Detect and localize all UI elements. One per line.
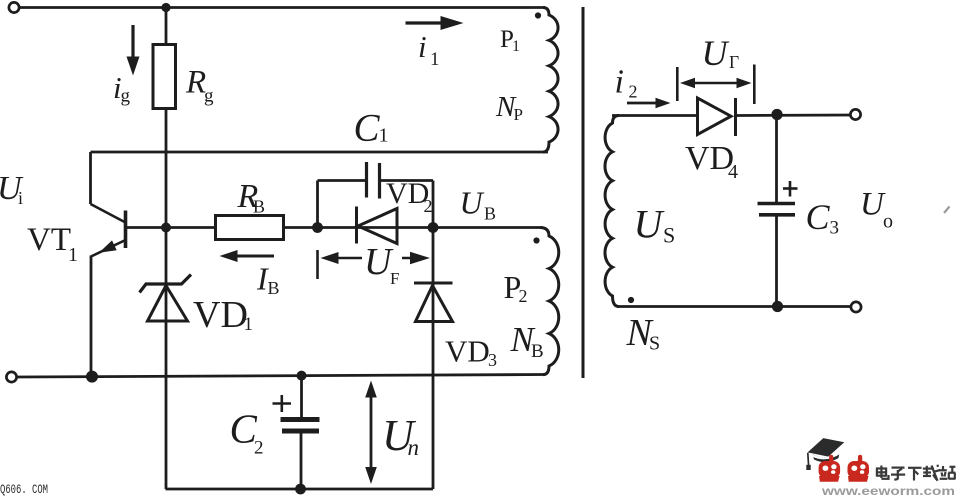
svg-text:VD: VD (685, 140, 734, 177)
svg-text:B: B (531, 341, 544, 362)
svg-text:4: 4 (728, 161, 738, 183)
svg-text:B: B (268, 278, 280, 298)
svg-text:1: 1 (244, 314, 254, 335)
svg-text:3: 3 (830, 218, 840, 239)
svg-text:www.eeworm.com: www.eeworm.com (821, 486, 955, 496)
svg-text:2: 2 (519, 286, 528, 306)
svg-text:o: o (883, 211, 893, 233)
svg-text:S: S (649, 333, 660, 355)
svg-text:C: C (806, 197, 831, 237)
svg-text:2: 2 (424, 196, 433, 216)
svg-text:S: S (663, 223, 675, 248)
svg-text:n: n (408, 435, 420, 460)
svg-text:B: B (253, 197, 265, 217)
svg-text:i: i (418, 29, 427, 64)
svg-text:U: U (460, 185, 485, 221)
svg-text:C: C (354, 107, 381, 150)
svg-text:R: R (185, 65, 206, 101)
svg-text:Γ: Γ (729, 52, 739, 72)
svg-text:2: 2 (629, 82, 638, 102)
svg-text:VT: VT (27, 222, 71, 258)
svg-text:B: B (484, 204, 496, 224)
svg-text:F: F (390, 269, 399, 288)
svg-text:VD: VD (193, 294, 248, 336)
svg-text:1: 1 (379, 125, 389, 147)
svg-text:1: 1 (430, 49, 440, 70)
svg-text:i: i (615, 64, 624, 101)
svg-text:i: i (18, 188, 23, 208)
svg-text:2: 2 (254, 438, 264, 459)
svg-text:U: U (702, 33, 730, 73)
svg-text:Q606. COM: Q606. COM (0, 482, 48, 496)
svg-text:P: P (514, 105, 523, 124)
svg-text:1: 1 (512, 38, 520, 55)
svg-text:VD: VD (445, 334, 490, 369)
svg-text:U: U (634, 202, 666, 247)
svg-text:3: 3 (488, 350, 497, 370)
svg-text:g: g (204, 86, 214, 107)
svg-text:1: 1 (68, 244, 78, 266)
svg-text:g: g (121, 86, 131, 107)
